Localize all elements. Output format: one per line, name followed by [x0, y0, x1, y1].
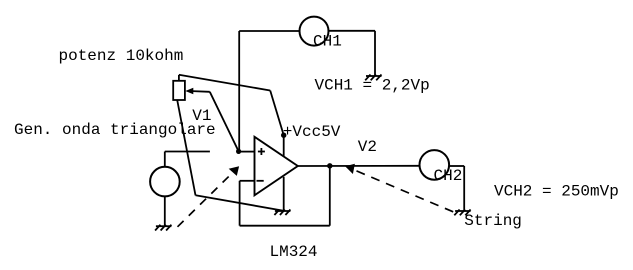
op-amp U1 triangle: [255, 137, 298, 196]
wire corner down to Vcc node: [270, 91, 284, 136]
voltmeter CH1 circle: [300, 17, 329, 46]
svg-text:+Vcc5V: +Vcc5V: [283, 123, 341, 141]
wire inverting input: [240, 180, 255, 182]
wire feedback left vertical: [239, 181, 241, 226]
wire top horizontal to CH1: [239, 30, 299, 32]
plus sign input: [258, 148, 265, 155]
ground under CH2 wire: [454, 210, 470, 216]
potentiometer wiper arrow: [185, 88, 210, 94]
svg-text:potenz 10kohm: potenz 10kohm: [59, 47, 184, 65]
ground under opamp: [274, 210, 290, 216]
svg-text:VCH1 = 2,2Vp: VCH1 = 2,2Vp: [315, 76, 430, 94]
wire pot bottom steep: [177, 100, 195, 195]
wire CH1 right horizontal: [329, 30, 376, 32]
wire node A to top corner: [238, 31, 240, 151]
minus sign input: [257, 180, 264, 182]
svg-text:V2: V2: [358, 138, 377, 156]
wire generator output horizontal: [165, 151, 210, 153]
wire Vminus pin below opamp: [283, 177, 285, 211]
ground under generator: [155, 225, 171, 231]
junction dot output: [327, 163, 332, 168]
wire noninverting input: [239, 151, 255, 153]
svg-text:LM324: LM324: [270, 243, 318, 261]
node A junction dot: [236, 149, 241, 154]
wire shallow to opamp ground: [196, 195, 284, 210]
dashed callout arrow to output node: [345, 164, 454, 213]
wire CH2 right horizontal: [449, 165, 464, 167]
wire feedback bottom: [240, 225, 330, 227]
wire wiper to node A: [210, 92, 239, 152]
svg-text:CH1: CH1: [313, 32, 342, 50]
generator G1 circle: [150, 167, 180, 197]
dashed callout arrow to input node: [178, 166, 240, 227]
wire pot top to corner: [179, 75, 270, 91]
wire down to ground VCH1: [374, 31, 376, 76]
voltmeter CH2 circle: [420, 150, 450, 180]
ground under CH1 wire: [365, 75, 381, 81]
svg-text:VCH2 = 250mVp: VCH2 = 250mVp: [494, 182, 619, 200]
potentiometer R1 body: [173, 75, 185, 100]
junction dot Vcc: [281, 133, 286, 138]
svg-text:String: String: [464, 212, 522, 230]
wire down to ground String: [463, 166, 465, 211]
wire feedback right vertical: [329, 166, 331, 226]
svg-text:CH2: CH2: [434, 167, 463, 185]
wire Vcc pin above opamp: [283, 135, 285, 157]
wire output to CH2: [298, 165, 420, 167]
wire generator bottom vertical: [164, 196, 166, 226]
wire generator top vertical: [164, 152, 166, 167]
svg-text:Gen. onda triangolare: Gen. onda triangolare: [14, 121, 216, 139]
